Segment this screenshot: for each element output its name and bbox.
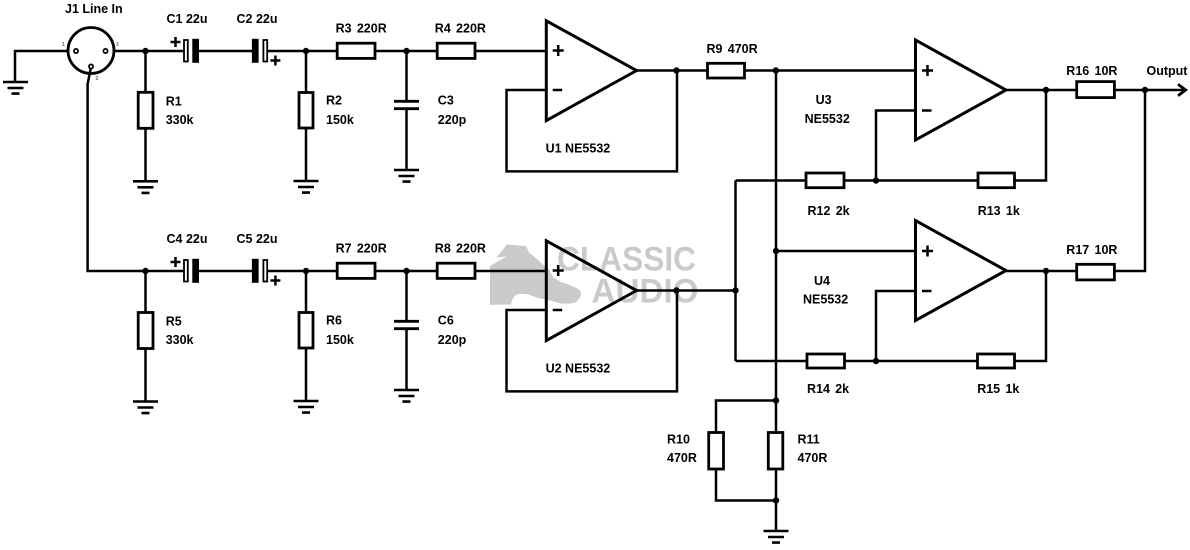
wire U1 output to R9 bbox=[637, 69, 708, 72]
svg-text:470R: 470R bbox=[798, 451, 828, 465]
wire U3 output to R16 bbox=[1006, 89, 1077, 92]
svg-text:C1 22u: C1 22u bbox=[167, 12, 208, 26]
wire R6 to ground bbox=[305, 348, 308, 401]
svg-text:R1: R1 bbox=[166, 95, 182, 109]
wire R4 to U1 bbox=[475, 50, 546, 53]
wire cross-coupling vertical U2 out to R12/R14 rows bbox=[734, 181, 737, 362]
ground main output network bbox=[764, 531, 789, 543]
watermark horse head logo bbox=[490, 244, 581, 305]
svg-text:C2 22u: C2 22u bbox=[237, 12, 278, 26]
wire node to R5 bbox=[144, 271, 147, 313]
node after J1 bbox=[142, 48, 148, 54]
capacitor C3 bbox=[394, 101, 419, 108]
capacitor C1 bbox=[171, 37, 200, 63]
resistor R17 bbox=[1077, 264, 1115, 280]
wire R14 row bbox=[736, 360, 808, 363]
node U2 output to cross vertical bbox=[732, 287, 738, 293]
node R3/C3/R4 bbox=[403, 48, 409, 54]
svg-text:1: 1 bbox=[62, 42, 65, 48]
wire R7 to R8 bbox=[375, 270, 437, 273]
node C5/R6/R7 bbox=[303, 268, 309, 274]
svg-text:U3: U3 bbox=[816, 93, 832, 107]
node output junction bbox=[1142, 87, 1148, 93]
svg-text:C6: C6 bbox=[438, 314, 454, 328]
wire R16 to output arrow bbox=[1114, 89, 1184, 92]
svg-text:220p: 220p bbox=[438, 333, 467, 347]
svg-text:R9 470R: R9 470R bbox=[707, 42, 758, 56]
node R10/R11 top bbox=[773, 397, 779, 403]
wire C3 to ground bbox=[405, 110, 408, 170]
svg-text:U2 NE5532: U2 NE5532 bbox=[546, 362, 611, 376]
op-amp U4 minus symbol bbox=[922, 290, 932, 293]
svg-text:R8 220R: R8 220R bbox=[435, 242, 486, 256]
wire U4 plus input bbox=[776, 250, 916, 253]
node U4 feedback junction bbox=[873, 358, 879, 364]
wire XLR pin2 down to lower channel bbox=[88, 69, 184, 271]
wire R15 to U4 output bbox=[1015, 271, 1047, 361]
wire U4 output to R17 bbox=[1006, 270, 1077, 273]
wire R9 to U3 plus input bbox=[745, 69, 916, 72]
svg-text:150k: 150k bbox=[326, 333, 354, 347]
wire U4 inverting input to feedback node bbox=[876, 291, 916, 361]
svg-text:R3 220R: R3 220R bbox=[336, 22, 387, 36]
svg-text:R4 220R: R4 220R bbox=[435, 22, 486, 36]
resistor R12 bbox=[806, 173, 844, 188]
svg-text:R5: R5 bbox=[166, 315, 182, 329]
resistor R6 bbox=[299, 313, 313, 349]
resistor R7 bbox=[337, 263, 375, 278]
svg-text:C3: C3 bbox=[438, 94, 454, 108]
wire R10 bottom branch bbox=[716, 469, 776, 501]
op-amp U3 plus symbol bbox=[922, 65, 933, 76]
wire R5 to ground bbox=[144, 349, 147, 402]
connector J1 XLR circle bbox=[68, 28, 114, 74]
svg-text:NE5532: NE5532 bbox=[803, 293, 848, 307]
wire node to R6 bbox=[305, 271, 308, 313]
resistor R14 bbox=[807, 354, 845, 368]
J1 pin 2 bbox=[89, 64, 93, 68]
node C2/R2/R3 bbox=[303, 48, 309, 54]
wire XLR pin3 to C1 bbox=[115, 50, 183, 53]
wire input left bbox=[15, 51, 68, 82]
wire node to C3 bbox=[405, 51, 408, 100]
wire node to R1 bbox=[144, 51, 147, 92]
op-amp U4 bbox=[916, 221, 1007, 321]
node lower channel after J1 bbox=[142, 268, 148, 274]
wire C4 to C5 bbox=[199, 270, 252, 273]
svg-text:C4 22u: C4 22u bbox=[167, 232, 208, 246]
J1 pin 3 bbox=[103, 49, 107, 53]
svg-text:Output: Output bbox=[1147, 64, 1189, 78]
resistor R8 bbox=[437, 263, 475, 278]
wire R13 to U3 output bbox=[1015, 90, 1047, 181]
node R10/R11 bottom bbox=[773, 497, 779, 503]
resistor R1 bbox=[138, 92, 153, 128]
node R9 output bbox=[773, 67, 779, 73]
wire R11 bottom to ground node bbox=[775, 469, 778, 531]
capacitor C5 bbox=[252, 259, 281, 286]
svg-text:R13 1k: R13 1k bbox=[978, 204, 1020, 218]
ground under R2 bbox=[294, 181, 319, 193]
capacitor C4 bbox=[171, 257, 200, 283]
wire R8 to U2 bbox=[475, 270, 546, 273]
wire main vertical R9 node down to R11 bbox=[775, 71, 778, 433]
wire node to C6 bbox=[405, 271, 408, 320]
J1 pin 1 bbox=[74, 49, 78, 53]
svg-text:150k: 150k bbox=[326, 113, 354, 127]
node U3 output bbox=[1043, 87, 1049, 93]
svg-text:R6: R6 bbox=[326, 314, 342, 328]
op-amp U4 plus symbol bbox=[922, 246, 933, 257]
svg-text:R12 2k: R12 2k bbox=[808, 204, 850, 218]
resistor R15 bbox=[978, 354, 1015, 368]
wire R12 row bbox=[736, 179, 807, 182]
op-amp U3 bbox=[916, 40, 1007, 140]
svg-text:R16 10R: R16 10R bbox=[1066, 64, 1117, 78]
op-amp U1 plus symbol bbox=[553, 45, 564, 56]
svg-text:220p: 220p bbox=[438, 113, 467, 127]
node U4 output bbox=[1043, 268, 1049, 274]
wire C1 to C2 bbox=[199, 50, 252, 53]
svg-text:R15 1k: R15 1k bbox=[977, 382, 1019, 396]
op-amp U2 plus symbol bbox=[553, 265, 564, 276]
wire output node down to R17 bbox=[1114, 90, 1145, 271]
svg-text:U1 NE5532: U1 NE5532 bbox=[546, 142, 611, 156]
op-amp U2 bbox=[546, 241, 636, 341]
op-amp U1 minus symbol bbox=[553, 89, 563, 92]
wire node to R2 bbox=[305, 51, 308, 93]
ground at input bbox=[3, 82, 28, 94]
wire C5 to R7 bbox=[268, 270, 337, 273]
svg-text:R7 220R: R7 220R bbox=[336, 242, 387, 256]
resistor R13 bbox=[978, 173, 1015, 188]
node U4 plus tap bbox=[773, 248, 779, 254]
ground under C3 bbox=[394, 170, 419, 182]
resistor R10 bbox=[709, 433, 724, 470]
svg-text:NE5532: NE5532 bbox=[805, 112, 850, 126]
svg-text:R2: R2 bbox=[326, 94, 342, 108]
resistor R16 bbox=[1077, 82, 1115, 98]
svg-text:330k: 330k bbox=[166, 113, 194, 127]
capacitor C6 bbox=[394, 321, 419, 328]
node R7/C6/R8 bbox=[403, 268, 409, 274]
svg-text:J1 Line In: J1 Line In bbox=[65, 2, 123, 16]
ground under R6 bbox=[294, 401, 319, 413]
node U1 output feedback bbox=[673, 67, 679, 73]
resistor R2 bbox=[299, 93, 313, 129]
svg-text:R14 2k: R14 2k bbox=[807, 382, 849, 396]
wire U2 feedback loop bbox=[507, 291, 678, 392]
wire U1 feedback loop bbox=[507, 71, 678, 172]
op-amp U2 minus symbol bbox=[553, 309, 563, 312]
ground under C6 bbox=[394, 390, 419, 402]
wire C2 to R3 bbox=[268, 50, 337, 53]
resistor R4 bbox=[437, 43, 475, 58]
op-amp U3 minus symbol bbox=[922, 109, 932, 112]
capacitor C2 bbox=[252, 39, 281, 66]
wire R12 to R13 bbox=[844, 179, 978, 182]
svg-text:R10: R10 bbox=[667, 433, 690, 447]
wire R14 to R15 bbox=[845, 360, 978, 363]
resistor R5 bbox=[138, 313, 153, 349]
wire C6 to ground bbox=[405, 330, 408, 390]
resistor R3 bbox=[337, 43, 375, 58]
node U2 output feedback bbox=[673, 287, 679, 293]
ground under R1 bbox=[133, 181, 158, 193]
output arrowhead bbox=[1178, 84, 1186, 95]
wire U3 inverting input to feedback node bbox=[876, 111, 916, 181]
resistor R11 bbox=[768, 433, 783, 470]
svg-text:2: 2 bbox=[96, 76, 99, 82]
svg-text:C5 22u: C5 22u bbox=[237, 232, 278, 246]
wire U2 output to cross vertical bbox=[637, 289, 736, 292]
svg-text:470R: 470R bbox=[667, 451, 697, 465]
resistor R9 bbox=[708, 63, 745, 78]
op-amp U1 bbox=[546, 21, 636, 121]
wire R10 branch top bbox=[716, 401, 776, 433]
svg-text:330k: 330k bbox=[166, 333, 194, 347]
svg-text:U4: U4 bbox=[814, 274, 830, 288]
wire R1 to ground bbox=[144, 128, 147, 181]
svg-text:R11: R11 bbox=[798, 433, 820, 447]
wire R2 to ground bbox=[305, 128, 308, 181]
ground under R5 bbox=[133, 402, 158, 414]
wire R3 to R4 bbox=[375, 50, 437, 53]
svg-text:3: 3 bbox=[116, 42, 119, 48]
svg-text:R17 10R: R17 10R bbox=[1066, 243, 1117, 257]
node U3 feedback junction bbox=[873, 177, 879, 183]
